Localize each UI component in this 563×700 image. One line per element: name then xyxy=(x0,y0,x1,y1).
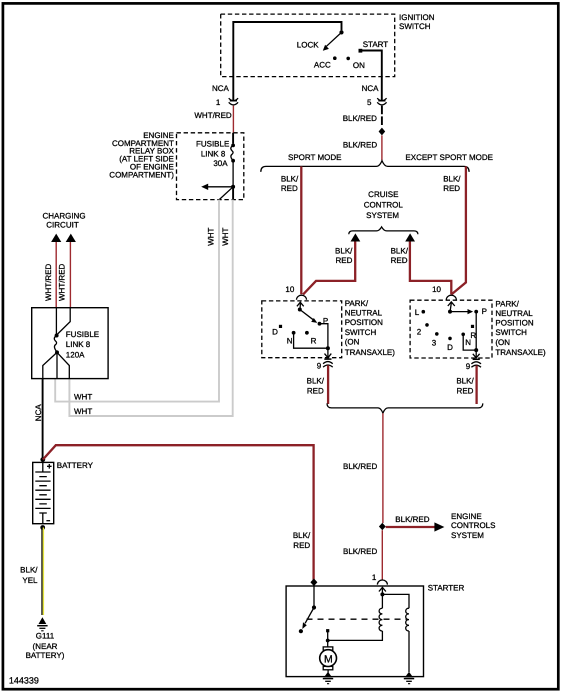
svg-text:CIRCUIT: CIRCUIT xyxy=(46,221,79,230)
svg-text:WHT: WHT xyxy=(221,227,230,245)
contact 3 (right PNP) xyxy=(432,332,439,347)
wire BLK/RED to engine controls system xyxy=(386,515,435,527)
ignition switch pivot node xyxy=(339,30,343,34)
svg-text:(ON: (ON xyxy=(495,338,510,347)
right PNP lever toward P xyxy=(450,309,473,314)
svg-text:WHT/RED: WHT/RED xyxy=(194,111,232,120)
left PNP lever toward P xyxy=(300,310,318,323)
junction node solenoid feed xyxy=(380,592,384,596)
junction node battery negative xyxy=(40,525,45,530)
svg-text:3: 3 xyxy=(432,339,437,348)
wire BLK/RED from splice to mode brace xyxy=(343,135,382,160)
svg-text:BLK/RED: BLK/RED xyxy=(343,140,377,149)
junction node right PNP output xyxy=(474,348,478,352)
starter switch pivot node xyxy=(312,605,316,609)
svg-text:9: 9 xyxy=(466,362,471,371)
starter switch open contact xyxy=(299,629,303,633)
svg-text:5: 5 xyxy=(367,98,372,107)
svg-text:BATTERY): BATTERY) xyxy=(26,651,65,660)
wire WHT (right) relay box to fusible link 120A box xyxy=(69,200,232,416)
wire contact to motor xyxy=(327,631,329,649)
junction node battery positive xyxy=(40,457,45,462)
svg-text:LOCK: LOCK xyxy=(297,41,319,50)
svg-text:PARK/: PARK/ xyxy=(345,299,369,308)
svg-text:COMPARTMENT): COMPARTMENT) xyxy=(109,170,174,179)
svg-text:EXCEPT SPORT MODE: EXCEPT SPORT MODE xyxy=(405,153,493,162)
svg-text:LINK 8: LINK 8 xyxy=(66,340,91,349)
fusible link 8 120A box xyxy=(32,308,108,379)
mechanical linkage (dashed) xyxy=(307,618,408,620)
PNP merge brace xyxy=(327,403,483,413)
node splice at starter input xyxy=(310,579,317,587)
ground G111 xyxy=(26,617,65,660)
svg-text:NEUTRAL: NEUTRAL xyxy=(345,309,383,318)
fusible link 8 30A fuse xyxy=(196,140,235,169)
node splice diamond below pin 5 xyxy=(379,128,386,136)
battery B1 xyxy=(33,460,94,524)
svg-text:NCA: NCA xyxy=(212,84,230,93)
wire ignition feed from pin 1 up and over to switch pivot xyxy=(233,22,341,100)
svg-text:CONTROLS: CONTROLS xyxy=(451,521,495,530)
wire hold-in coil to ground xyxy=(408,631,410,672)
svg-text:FUSIBLE: FUSIBLE xyxy=(196,140,229,149)
connector pin 9 (right PNP) xyxy=(466,350,481,371)
ignition switch S1 box xyxy=(221,13,435,77)
svg-text:BLK/RED: BLK/RED xyxy=(343,547,377,556)
wire BLK/ RED label near battery cable xyxy=(293,531,311,550)
wire N contact to output (right PNP) xyxy=(463,334,476,350)
wire BLK/RED brace to splice xyxy=(343,413,383,523)
svg-text:R: R xyxy=(470,331,476,340)
arrow to ENGINE CONTROLS SYSTEM xyxy=(434,512,495,540)
wire BLK/RED splice to starter pin 1 xyxy=(343,530,382,579)
svg-text:RED: RED xyxy=(281,184,298,193)
connector NCA pin 5 label xyxy=(362,84,380,107)
park/neutral position switch (left) box xyxy=(262,299,395,357)
svg-text:BLK/: BLK/ xyxy=(456,376,474,385)
connector pin 1 starter xyxy=(372,573,388,594)
wire BLK/RED dashed segment below pin 5 xyxy=(343,106,382,128)
svg-text:FUSIBLE: FUSIBLE xyxy=(66,330,99,339)
svg-text:WHT: WHT xyxy=(74,407,92,416)
svg-text:BLK/RED: BLK/RED xyxy=(343,462,377,471)
svg-text:WHT: WHT xyxy=(74,392,92,401)
svg-text:R: R xyxy=(311,336,317,345)
svg-text:9: 9 xyxy=(317,361,322,370)
svg-text:D: D xyxy=(272,328,278,337)
svg-text:SPORT MODE: SPORT MODE xyxy=(288,153,342,162)
svg-text:SYSTEM: SYSTEM xyxy=(366,211,399,220)
svg-text:ACC: ACC xyxy=(314,60,331,69)
wire pull-in coil to motor node xyxy=(330,631,383,640)
svg-text:PARK/: PARK/ xyxy=(495,300,519,309)
wire vertical to WHT exit xyxy=(232,187,234,200)
wire BLK/RED except sport mode branch xyxy=(443,166,466,294)
svg-text:RED: RED xyxy=(391,256,408,265)
wire BLK/RED cruise left to connector 10 xyxy=(303,242,355,295)
arrow to cruise control (left) xyxy=(351,233,361,241)
contact R (left PNP) xyxy=(305,331,317,345)
svg-text:120A: 120A xyxy=(66,350,85,359)
ignition switch lever (pointing to LOCK) xyxy=(323,32,342,50)
contact N (right PNP) xyxy=(461,333,471,347)
svg-text:TRANSAXLE): TRANSAXLE) xyxy=(495,348,546,357)
wire NCA from 120A box to battery xyxy=(34,379,43,458)
svg-text:STARTER: STARTER xyxy=(428,584,465,593)
starter box xyxy=(286,584,464,677)
wire BLK/RED sport mode branch xyxy=(281,166,301,294)
svg-text:RED: RED xyxy=(307,386,324,395)
left PNP pivot node xyxy=(298,308,302,312)
svg-text:BLK/: BLK/ xyxy=(281,174,299,183)
solenoid hold-in coil xyxy=(406,608,409,631)
svg-text:BLK/RED: BLK/RED xyxy=(343,114,377,123)
wire left feed inside 120A box xyxy=(55,308,57,334)
arrow to other circuits (left) xyxy=(201,184,233,190)
svg-text:START: START xyxy=(363,40,389,49)
svg-text:10: 10 xyxy=(285,285,294,294)
svg-text:1: 1 xyxy=(216,98,221,107)
starter switch lever xyxy=(302,608,314,630)
wire fuse to junction xyxy=(232,161,234,187)
svg-text:NEUTRAL: NEUTRAL xyxy=(495,309,533,318)
svg-text:NCA: NCA xyxy=(362,84,380,93)
svg-text:NCA: NCA xyxy=(34,404,43,422)
right PNP pivot node xyxy=(448,310,452,314)
contact D (right PNP) xyxy=(447,337,453,352)
park/neutral position switch (right) box xyxy=(410,300,546,358)
wire N contact to output (left PNP) xyxy=(294,333,328,348)
svg-text:ENGINE: ENGINE xyxy=(451,512,482,521)
svg-text:BLK/: BLK/ xyxy=(391,247,409,256)
junction node in relay box xyxy=(231,185,235,189)
connector pin 10 (left PNP switch) xyxy=(285,285,306,310)
svg-text:BATTERY: BATTERY xyxy=(57,461,94,470)
connector NCA pin 1 label xyxy=(212,84,230,107)
svg-text:RED: RED xyxy=(336,256,353,265)
svg-text:M: M xyxy=(324,654,333,666)
mode selection brace (SPORT MODE / EXCEPT SPORT MODE) xyxy=(261,153,493,172)
svg-text:BLK/: BLK/ xyxy=(20,565,38,574)
wire motor to ground xyxy=(327,670,329,673)
wire BLK/RED cruise right to connector 10 xyxy=(391,242,452,295)
solenoid pull-in coil xyxy=(379,608,382,631)
ground starter motor xyxy=(323,672,333,684)
connector C1 pin 5 symbol xyxy=(377,98,386,105)
svg-text:POSITION: POSITION xyxy=(345,318,383,327)
wire WHT (left) relay box to fusible link 120A box xyxy=(55,200,219,402)
wire WHT/RED from pin 1 to relay box xyxy=(194,106,233,133)
svg-text:RED: RED xyxy=(457,386,474,395)
connector C1 pin 1 symbol xyxy=(229,98,238,105)
svg-text:BLK/: BLK/ xyxy=(293,531,311,540)
contact START xyxy=(359,40,389,52)
contact ACC xyxy=(314,56,337,69)
fusible link 8 120A fuse xyxy=(54,334,59,355)
svg-text:G111: G111 xyxy=(36,632,55,641)
svg-text:CONTROL: CONTROL xyxy=(364,200,404,209)
contact P (left PNP) xyxy=(318,316,329,325)
contact ON xyxy=(346,57,365,70)
svg-text:RED: RED xyxy=(293,541,310,550)
contact N (left PNP) xyxy=(287,331,296,345)
wire P contact to output (right PNP) xyxy=(475,312,477,351)
wire fuse diagonal right exit xyxy=(57,352,69,378)
svg-text:IGNITION: IGNITION xyxy=(399,13,435,22)
node CHARGING CIRCUIT (off-page arrows) xyxy=(42,211,85,242)
node splice to engine controls xyxy=(379,523,386,530)
junction node motor feed xyxy=(326,639,330,643)
arrow to cruise control (right) xyxy=(405,233,415,241)
wire BLK/RED right PNP to brace xyxy=(456,366,476,405)
connector pin 9 (left PNP) xyxy=(317,348,333,370)
contact L (right PNP) xyxy=(415,308,425,317)
engine compartment relay box (dashed) xyxy=(109,131,243,199)
junction node left PNP output xyxy=(326,346,330,350)
svg-text:WHT: WHT xyxy=(206,227,215,245)
wire from START contact down to pin 5 xyxy=(359,51,382,101)
svg-text:RED: RED xyxy=(443,184,460,193)
svg-text:WHT/RED: WHT/RED xyxy=(58,263,67,301)
wire to hold-in coil xyxy=(382,594,409,608)
contact P (right PNP) xyxy=(474,307,487,316)
wire into fusible link 30A xyxy=(232,133,234,144)
wire battery positive cable to starter (thick) xyxy=(43,445,314,580)
wire diagonal to WHT exit xyxy=(219,187,233,200)
starter motor M xyxy=(320,647,337,670)
wire WHT/RED left to charging circuit xyxy=(44,242,56,308)
svg-text:BLK/: BLK/ xyxy=(443,174,461,183)
svg-text:(NEAR: (NEAR xyxy=(33,642,58,651)
svg-text:30A: 30A xyxy=(213,159,228,168)
svg-text:SYSTEM: SYSTEM xyxy=(451,531,484,540)
svg-text:CHARGING: CHARGING xyxy=(42,211,85,220)
wire BLK/RED left PNP to brace xyxy=(307,365,328,404)
svg-text:(ON: (ON xyxy=(345,337,360,346)
contact 2 (right PNP) xyxy=(417,323,429,336)
starter switch fixed contact xyxy=(326,629,329,632)
svg-text:1: 1 xyxy=(372,573,377,582)
svg-text:TRANSAXLE): TRANSAXLE) xyxy=(345,348,396,357)
svg-text:BLK/RED: BLK/RED xyxy=(395,515,429,524)
svg-text:LINK 8: LINK 8 xyxy=(201,149,226,158)
svg-text:2: 2 xyxy=(417,327,422,336)
wire fuse to NCA exit (diagonal left) xyxy=(43,352,57,378)
svg-text:P: P xyxy=(482,307,487,316)
wire WHT/RED right to charging circuit xyxy=(58,242,71,308)
contact D (left PNP) xyxy=(272,325,282,337)
ground starter solenoid xyxy=(404,672,414,684)
wire P contact to output (left PNP) xyxy=(320,324,328,349)
wire battery cable into starter switch xyxy=(313,584,315,608)
svg-text:CRUISE: CRUISE xyxy=(368,190,398,199)
svg-text:N: N xyxy=(287,336,293,345)
svg-text:ON: ON xyxy=(353,61,365,70)
node CRUISE CONTROL SYSTEM (brace) xyxy=(349,190,418,234)
svg-text:10: 10 xyxy=(432,285,441,294)
svg-text:BLK/: BLK/ xyxy=(335,247,353,256)
svg-text:YEL: YEL xyxy=(22,576,38,585)
wire right feed diagonal inside 120A box xyxy=(57,308,70,335)
wire fuse straight down exit xyxy=(56,352,58,378)
svg-text:D: D xyxy=(447,343,453,352)
svg-text:SWITCH: SWITCH xyxy=(399,22,431,31)
svg-text:SWITCH: SWITCH xyxy=(345,328,377,337)
svg-text:BLK/: BLK/ xyxy=(307,376,325,385)
svg-text:POSITION: POSITION xyxy=(495,319,533,328)
svg-text:SWITCH: SWITCH xyxy=(495,328,527,337)
svg-text:144339: 144339 xyxy=(9,675,39,685)
connector pin 10 (right PNP switch) xyxy=(432,285,456,311)
wire to pull-in coil xyxy=(381,594,383,608)
svg-text:L: L xyxy=(415,308,420,317)
contact R (right PNP) xyxy=(470,325,476,340)
svg-text:WHT/RED: WHT/RED xyxy=(44,263,53,301)
wire BLK/YEL battery to ground xyxy=(20,528,43,616)
